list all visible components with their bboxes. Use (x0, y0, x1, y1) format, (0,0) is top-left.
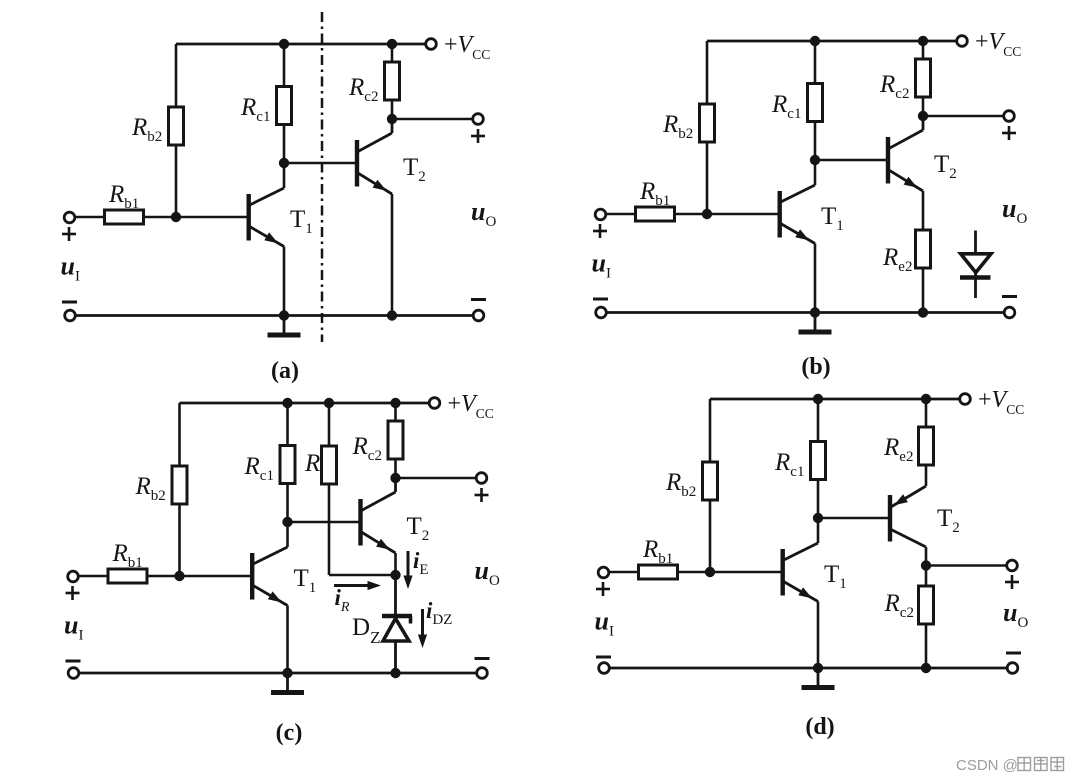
terminal (d): +Vcc (960, 394, 971, 405)
ground symbol (b) (799, 313, 832, 333)
transistor T1 (a) NPN (249, 188, 284, 247)
resistor Rc1 (a) (277, 87, 292, 125)
wire (d): Rc2 to rail (925, 624, 928, 668)
resistor Rb2 (d) (703, 462, 718, 500)
resistor Rc1 (c) (280, 446, 295, 484)
wire (d): +Vcc top rail (710, 398, 960, 401)
terminal (c): input + (68, 571, 79, 582)
node (b): Re2 rail junction (918, 307, 928, 317)
resistor Rb1 (a) (105, 210, 144, 224)
wire (d): base line to T2 (818, 517, 890, 520)
resistor Rb1 (b) (636, 207, 675, 221)
node (d): output node (921, 560, 931, 570)
node (d): T1 collector node (813, 513, 823, 523)
wire (a): base line to T2 (284, 162, 356, 165)
label (a): output plus sign (471, 129, 485, 143)
node (a): right column top junction (387, 39, 397, 49)
node (b): output node (918, 111, 928, 121)
svg-text:CSDN @: CSDN @ (956, 757, 1018, 774)
arrow shaft (c): iR (334, 584, 371, 587)
wire (b): output line (923, 115, 1004, 118)
label (b): input minus sign (593, 298, 608, 301)
dash-dot stage divider line (a) (321, 12, 324, 342)
resistor Rc2 (d) (919, 586, 934, 624)
zener diode DZ (c) (382, 575, 412, 673)
terminal (a): output + (473, 114, 484, 125)
wire (b): bottom rail (607, 311, 1005, 314)
arrow: T2 (a) emitter arrow (373, 180, 387, 191)
ground symbol (c) (271, 673, 304, 693)
terminal (a): bottom right (473, 310, 484, 321)
label (a): input plus sign (62, 227, 76, 241)
wire (d): Rc1 column (817, 399, 820, 518)
arrow (c): iR current arrow (368, 581, 382, 590)
arrow: T1 (d) emitter arrow (798, 587, 812, 598)
node (a): T2 emitter rail junction (387, 310, 397, 320)
terminal (b): output + (1004, 111, 1015, 122)
label (c): output plus sign (475, 488, 489, 502)
wire (a): Rb2 column (175, 44, 178, 217)
terminal (d): output + (1007, 560, 1018, 571)
node (c): output node (390, 473, 400, 483)
terminal (a): bottom left (65, 310, 76, 321)
wire (b): +Vcc top rail (707, 40, 957, 43)
wire (c): R column upper lead (328, 403, 331, 446)
label (c): output minus sign (475, 657, 490, 660)
wire (a): output line (392, 118, 473, 121)
ground symbol (d) (802, 668, 835, 688)
arrow: T2 (c) emitter arrow (376, 539, 390, 550)
transistor T1 (d) NPN (783, 543, 818, 602)
terminal (c): bottom right (477, 668, 488, 679)
terminal (c): output + (476, 473, 487, 484)
diode D (b), floating reference diode (960, 231, 991, 299)
node (c): R top junction (324, 398, 334, 408)
wire (a): T1 emitter to rail (283, 247, 286, 316)
wire (b): Re2 to rail (922, 268, 925, 313)
node (b): Rb1-Rb2 junction (702, 209, 712, 219)
node (c): Rc1 top junction (282, 398, 292, 408)
label (c): input minus sign (66, 660, 81, 663)
label (d): output minus sign (1006, 652, 1021, 655)
node (c): T1 emitter rail junction (282, 668, 292, 678)
terminal (c): bottom left (68, 668, 79, 679)
node (c): zener rail junction (390, 668, 400, 678)
wire (c): T1 collector lead (286, 522, 289, 547)
wire (c): Rb2 column (178, 403, 181, 576)
resistor Rb2 (c) (172, 466, 187, 504)
wire (c): T1 emitter to rail (286, 606, 289, 674)
resistor Re2 (b) (916, 230, 931, 268)
transistor T2 (d) PNP (890, 486, 926, 547)
wire (d): output line (926, 564, 1007, 567)
resistor Re2 (d) (919, 427, 934, 465)
label (a): output minus sign (471, 298, 486, 301)
terminal (b): +Vcc (957, 36, 968, 47)
node (d): T1 emitter rail junction (813, 663, 823, 673)
arrow (c): iE current arrow (403, 576, 412, 590)
terminal (d): bottom right (1007, 663, 1018, 674)
svg-text:(d): (d) (805, 714, 834, 740)
wire (c): R to emitter node (329, 574, 396, 577)
node (c): emitter-zener node (390, 570, 400, 580)
transistor T1 (c) NPN (252, 547, 287, 606)
wire (d): bottom rail (610, 667, 1008, 670)
label (d): input minus sign (596, 656, 611, 659)
resistor Rb2 (a) (169, 107, 184, 145)
label (d): output plus sign (1005, 575, 1019, 589)
wire (d): T1 collector lead (817, 518, 820, 543)
terminal (c): +Vcc (429, 398, 440, 409)
node (c): Rb1-Rb2 junction (174, 571, 184, 581)
label (c): input plus sign (66, 586, 80, 600)
wire (d): T2 collector lead (925, 547, 928, 566)
wire (a): Rc1 column (283, 44, 286, 163)
node (a): Rb1-Rb2 junction (171, 212, 181, 222)
transistor T2 (c) NPN (361, 478, 396, 553)
wire (b): base line to T2 (815, 159, 887, 162)
resistor Rb1 (d) (639, 565, 678, 579)
svg-text:(a): (a) (271, 358, 299, 384)
wire (b): T2 emitter to Re2 (922, 191, 925, 230)
ground symbol (a) (268, 316, 301, 336)
wire (a): T2 emitter to rail (391, 194, 394, 316)
node (c): T1 collector node (282, 517, 292, 527)
wire (b): Rb2 column (706, 41, 709, 214)
wire (d): input to T1 base (609, 571, 783, 574)
terminal (b): bottom left (596, 307, 607, 318)
terminal (a): input + (64, 212, 75, 223)
wire (a): +Vcc top rail (176, 43, 426, 46)
label (d): input plus sign (596, 582, 610, 596)
node (c): right column top junction (390, 398, 400, 408)
wire (b): Rc1 column (814, 41, 817, 160)
arrow: T2 (b) emitter arrow (904, 177, 918, 188)
label (b): output minus sign (1002, 295, 1017, 298)
wire (c): input to T1 base (79, 575, 253, 578)
wire (a): bottom rail (76, 314, 474, 317)
label (b): input plus sign (593, 224, 607, 238)
resistor Rc1 (d) (811, 442, 826, 480)
arrow: T2 (d) emitter arrow (PNP, into bar) (894, 494, 908, 505)
transistor T1 (b) NPN (780, 185, 815, 244)
node (d): Rb1-Rb2 junction (705, 567, 715, 577)
wire (b): T1 emitter to rail (814, 244, 817, 313)
node (b): T1 emitter rail junction (810, 307, 820, 317)
wire (c): +Vcc top rail (180, 402, 430, 405)
wire (b): input to T1 base (606, 213, 780, 216)
node (d): Rc1 top junction (813, 394, 823, 404)
wire (d): Rc2 upper lead (925, 566, 928, 587)
node (b): T1 collector node (810, 155, 820, 165)
resistor Rb1 (c) (108, 569, 147, 583)
wire (b): Rc2 column (922, 41, 925, 116)
label (a): input minus sign (62, 301, 77, 304)
wire (c): R column lower lead (328, 484, 331, 575)
terminal (a): +Vcc (426, 39, 437, 50)
resistor Rc1 (b) (808, 84, 823, 122)
node (a): T1 emitter rail junction (279, 310, 289, 320)
wire (d): Re2 upper lead (925, 399, 928, 428)
terminal (d): input + (598, 567, 609, 578)
wire (c): Rc1 column (286, 403, 289, 522)
terminal (b): bottom right (1004, 307, 1015, 318)
wire (b): T1 collector lead (814, 160, 817, 185)
svg-text:(b): (b) (801, 354, 830, 380)
resistor Rc2 (a) (385, 62, 400, 100)
arrow (c): iDZ current arrow (418, 635, 427, 649)
transistor T2 (b) NPN (888, 116, 923, 191)
arrow: T1 (b) emitter arrow (795, 229, 809, 240)
resistor Rc2 (c) (388, 421, 403, 459)
terminal (d): bottom left (599, 663, 610, 674)
resistor Rb2 (b) (700, 104, 715, 142)
resistor Rc2 (b) (916, 59, 931, 97)
wire (d): T1 emitter to rail (817, 602, 820, 669)
transistor T2 (a) NPN (357, 119, 392, 194)
wire (a): T1 collector lead (283, 163, 286, 188)
node (b): right column top junction (918, 36, 928, 46)
wire (c): output line (396, 477, 477, 480)
arrow shaft (c): iE (407, 551, 410, 577)
wire (c): bottom rail (79, 672, 477, 675)
arrow: T1 (c) emitter arrow (268, 591, 282, 602)
wire (a): Rc2 column (391, 44, 394, 119)
wire (c): base line to T2 (288, 521, 360, 524)
node (b): Rc1 top junction (810, 36, 820, 46)
svg-text:R: R (304, 450, 320, 477)
node (a): output node (387, 114, 397, 124)
node (a): T1 collector node (279, 158, 289, 168)
wire (a): input to T1 base (75, 216, 249, 219)
label (b): output plus sign (1002, 126, 1016, 140)
node (d): Rc2 rail junction (921, 663, 931, 673)
terminal (b): input + (595, 209, 606, 220)
wire (c): Rc2 column (394, 403, 397, 478)
resistor R (c) (322, 446, 337, 484)
wire (d): Re2 lower lead (925, 464, 928, 486)
wire (d): Rb2 column (709, 399, 712, 572)
node (a): Rc1 top junction (279, 39, 289, 49)
svg-text:(c): (c) (276, 720, 303, 746)
arrow shaft (c): iDZ (421, 609, 424, 636)
node (d): right column top junction (921, 394, 931, 404)
wire (c): T2 emitter to node (394, 553, 397, 575)
arrow: T1 (a) emitter arrow (264, 232, 278, 243)
